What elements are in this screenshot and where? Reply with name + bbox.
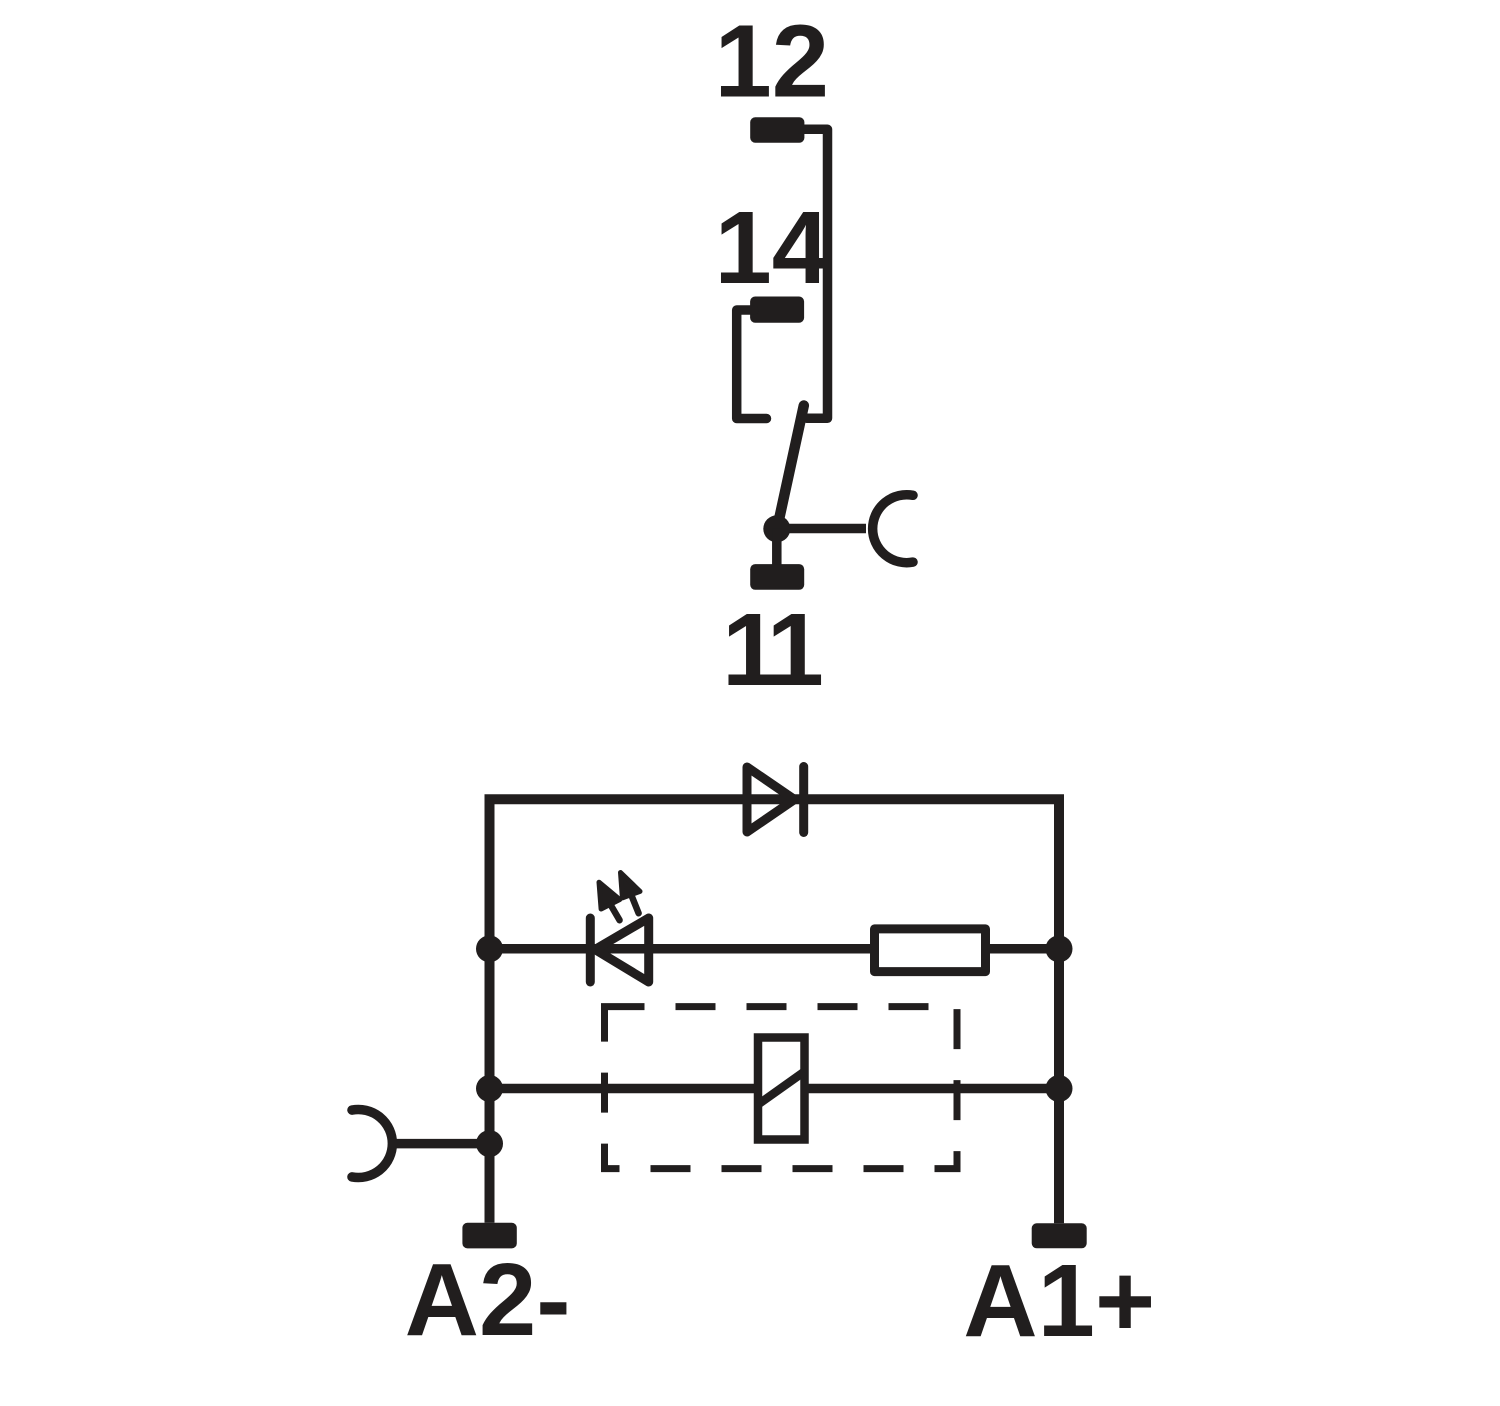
node switch common 11 bbox=[763, 515, 790, 542]
node left vertical / middle wire bbox=[476, 935, 503, 962]
svg-text:11: 11 bbox=[722, 592, 822, 707]
wire node to plug symbol bbox=[777, 524, 866, 534]
wire coil loop: A2 vertical, top wire, A1 vertical bbox=[490, 799, 1060, 1223]
terminal 14 bbox=[750, 297, 804, 323]
svg-text:A2-: A2- bbox=[405, 1242, 571, 1357]
dashed relay enclosure outline bbox=[605, 1007, 958, 1169]
wire A2 plug branch bbox=[396, 1139, 490, 1149]
node left vertical / coil wire bbox=[476, 1075, 503, 1102]
LED emission arrow left bbox=[599, 882, 620, 920]
wire 12 to NC contact stub bbox=[800, 129, 828, 418]
relay coil box bbox=[758, 1038, 805, 1140]
svg-text:12: 12 bbox=[715, 4, 830, 119]
node left vertical / plug branch bbox=[476, 1130, 503, 1157]
node right vertical / middle wire bbox=[1046, 935, 1073, 962]
terminal A1 bbox=[1032, 1223, 1087, 1248]
node right vertical / coil wire bbox=[1046, 1075, 1073, 1102]
wire node to terminal 11 bbox=[772, 529, 782, 566]
wire coil branch bbox=[490, 1084, 1060, 1094]
svg-text:14: 14 bbox=[715, 190, 830, 305]
resistor on middle wire bbox=[875, 929, 986, 972]
LED on middle wire bbox=[590, 918, 648, 982]
terminal 11 bbox=[750, 564, 804, 590]
terminal A2 bbox=[462, 1223, 516, 1249]
wire 14 to NO contact stub bbox=[737, 310, 767, 419]
diode (freewheeling) on top wire bbox=[747, 767, 804, 833]
middle wire LED-resistor branch bbox=[490, 944, 1060, 954]
plug-in connection symbol (left, opens left) bbox=[352, 1110, 392, 1178]
LED emission arrow right bbox=[621, 873, 641, 914]
svg-text:A1+: A1+ bbox=[963, 1243, 1155, 1358]
terminal 12 bbox=[750, 117, 804, 142]
plug-in connection symbol (right, opens right) bbox=[873, 495, 913, 563]
switch lever (changeover contact) bbox=[777, 406, 804, 529]
